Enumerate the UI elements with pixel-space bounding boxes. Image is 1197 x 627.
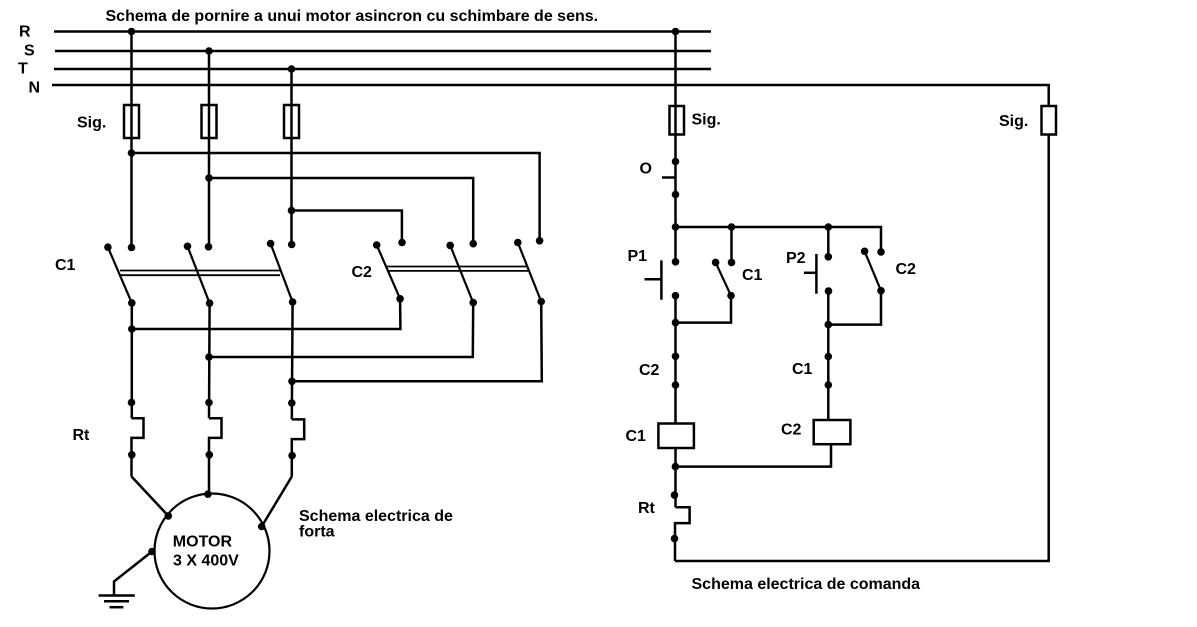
start button P1 contact (NO) (645, 258, 680, 300)
svg-text:Sig.: Sig. (692, 112, 721, 129)
wire C1 pole 1 output down to thermal relay (131, 303, 134, 418)
node coil junction (672, 463, 680, 471)
contactor C2 pole 2 contact (446, 240, 477, 307)
fuse F4 control (670, 106, 685, 135)
bus N wire with corner down to control fuse (52, 85, 1049, 106)
coil C2 (814, 420, 851, 444)
coil C1 (658, 424, 694, 449)
node P2/C2aux junction (825, 321, 833, 329)
wire coil C1 bottom to junction (674, 448, 677, 507)
svg-text:C1: C1 (55, 257, 76, 274)
wire C1 aux bottom loop (676, 296, 732, 323)
ground symbol (99, 596, 135, 608)
fuse F2 (202, 105, 217, 138)
svg-text:N: N (29, 80, 41, 97)
stop button O contact (NC) (662, 158, 679, 199)
svg-text:T: T (18, 61, 28, 78)
contactor C1 pole 3 contact (267, 240, 297, 306)
wire P2 lower segment down C2 branch (827, 291, 830, 420)
wire P1 lower segment down C1 branch (674, 296, 677, 424)
svg-text:C2: C2 (781, 422, 802, 439)
C2 auxiliary seal-in contact (861, 248, 885, 295)
svg-text:Schema de pornire a unui motor: Schema de pornire a unui motor asincron … (106, 8, 599, 25)
phase 1 feed wire from R through fuse to C1 pole 1 (130, 32, 133, 248)
svg-text:O: O (640, 161, 652, 178)
wire C1 pole 3 output down to thermal relay (291, 302, 294, 419)
C1 auxiliary seal-in contact (712, 227, 736, 300)
wire motor lead phase 1 (132, 477, 169, 516)
node control tap on R (672, 28, 680, 36)
bus S wire (55, 50, 711, 53)
wire C2 pole 3 output to phase 3 junction (292, 302, 542, 382)
svg-text:C1: C1 (792, 361, 813, 378)
fuse F3 (284, 105, 299, 138)
node P1/C1aux junction (672, 319, 680, 327)
thermal relay Rt heater phase 3 (288, 399, 304, 476)
svg-text:forta: forta (299, 524, 335, 541)
node phase 2 output junction (205, 353, 213, 361)
node bus T tap (288, 65, 296, 73)
wire motor lead phase 3 (262, 477, 292, 527)
wire P2 feed from rail (827, 227, 830, 257)
svg-text:C2: C2 (639, 362, 660, 379)
svg-text:R: R (19, 24, 31, 41)
wire tap phase 3 to C2 pole 1 (292, 211, 402, 243)
motor terminal node phase 1 (165, 512, 173, 520)
motor terminal node phase 2 (204, 490, 212, 498)
contactor C1 pole 1 contact (104, 243, 136, 306)
bus R wire (54, 30, 711, 33)
node control rail left (672, 223, 680, 231)
svg-text:P2: P2 (786, 250, 806, 267)
node phase 2 below fuse (205, 174, 213, 182)
node phase 1 output junction (128, 325, 136, 333)
motor terminal node phase 3 (258, 523, 266, 531)
wire C2 aux bottom loop (828, 291, 881, 325)
svg-text:C1: C1 (742, 267, 763, 284)
node phase 3 below fuse (288, 207, 296, 215)
svg-text:S: S (24, 43, 35, 60)
control rail wire to C2 branch (676, 227, 882, 252)
wire C2 pole 2 output to phase 2 junction (209, 303, 473, 357)
contactor C2 pole 3 contact (514, 237, 545, 305)
motor ground terminal node (148, 548, 156, 556)
svg-text:C2: C2 (352, 264, 373, 281)
thermal relay Rt heater phase 1 (128, 399, 144, 477)
svg-text:P1: P1 (628, 248, 648, 265)
phase 3 feed wire from T through fuse to C1 pole 3 (290, 69, 293, 245)
contactor C1 mechanical linkage bar (120, 271, 280, 276)
thermal relay Rt contact (control) (671, 491, 690, 561)
motor M1 circle (155, 494, 270, 609)
node bus R tap (128, 28, 136, 36)
fuse F1 (124, 105, 139, 138)
svg-text:3 X 400V: 3 X 400V (173, 553, 239, 570)
control feed wire from R down to coil C1 (upper segment to P1 gap) (674, 32, 677, 262)
thermal relay Rt heater phase 2 (205, 399, 221, 495)
node P2 branch tap (825, 223, 833, 231)
fuse F5 right (1042, 106, 1057, 135)
node C1 aux branch tap (728, 223, 736, 231)
wire to ground (114, 552, 152, 596)
svg-text:MOTOR: MOTOR (173, 533, 233, 550)
node bus S tap (205, 47, 213, 55)
bottom return wire to N (675, 135, 1049, 562)
contactor C1 pole 2 contact (184, 243, 214, 308)
C2 interlock contact (NC) in C1 branch (672, 353, 680, 389)
node phase 3 output junction (288, 378, 296, 386)
wire C2 pole 1 output to phase 1 junction (132, 299, 401, 329)
svg-text:Sig.: Sig. (77, 115, 106, 132)
C1 interlock contact (NC) in C2 branch (825, 353, 833, 389)
wire tap phase 1 to C2 pole 3 (132, 153, 540, 241)
contactor C2 mechanical linkage bar (387, 267, 528, 271)
svg-text:Rt: Rt (73, 427, 91, 444)
wire tap phase 2 to C2 pole 2 (209, 178, 473, 244)
svg-text:C1: C1 (626, 428, 647, 445)
phase 2 feed wire from S through fuse to C1 pole 2 (208, 51, 211, 247)
bus T wire (54, 68, 711, 71)
contactor C2 pole 1 contact (373, 239, 406, 303)
svg-text:C2: C2 (896, 261, 917, 278)
wire C1 pole 2 output down to thermal relay (208, 303, 211, 418)
wire coil C2 bottom to junction rail (675, 444, 831, 466)
node phase 1 below fuse (128, 149, 136, 157)
start button P2 contact (NO) (804, 253, 832, 295)
svg-text:Sig.: Sig. (999, 113, 1028, 130)
svg-text:Schema electrica de: Schema electrica de (299, 508, 453, 525)
svg-text:Schema electrica de comanda: Schema electrica de comanda (692, 576, 921, 593)
svg-text:Rt: Rt (638, 500, 656, 517)
